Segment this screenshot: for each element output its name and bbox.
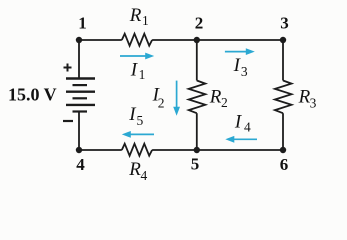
node 4 junction dot bbox=[76, 147, 82, 153]
wire: node 2 down to R2 bbox=[196, 40, 198, 81]
resistor R3 zigzag bbox=[275, 81, 292, 114]
svg-text:R: R bbox=[209, 86, 222, 107]
svg-text:2: 2 bbox=[195, 14, 204, 33]
wire: node 1 down to battery + terminal bbox=[78, 40, 80, 79]
wire: node 5 to node 6 (bottom rail right) bbox=[197, 149, 283, 151]
battery plate long 3 bbox=[66, 104, 95, 106]
svg-text:6: 6 bbox=[280, 155, 289, 174]
svg-text:3: 3 bbox=[280, 14, 289, 33]
resistor R1 zigzag bbox=[122, 34, 152, 46]
wire: R4 to node 5 (bottom rail middle) bbox=[152, 149, 197, 151]
battery 15.0 V: plate long 1 bbox=[66, 77, 95, 79]
svg-text:2: 2 bbox=[221, 95, 228, 110]
svg-text:I: I bbox=[234, 111, 243, 132]
node 2 junction dot bbox=[194, 37, 200, 43]
svg-text:3: 3 bbox=[310, 96, 317, 111]
wire: R2 down to node 5 bbox=[196, 113, 198, 150]
svg-text:2: 2 bbox=[158, 95, 165, 110]
current I5 arrow bbox=[122, 131, 154, 138]
wire: R1 to node 2 (top rail middle) bbox=[152, 39, 197, 41]
node 3 junction dot bbox=[280, 37, 286, 43]
resistor R2 zigzag bbox=[189, 81, 206, 114]
node 6 junction dot bbox=[280, 147, 286, 153]
wire: node 4 to R4 (bottom rail left) bbox=[79, 149, 122, 151]
wire: node 1 to R1 (top rail left) bbox=[79, 39, 122, 41]
svg-text:1: 1 bbox=[78, 14, 87, 33]
svg-text:4: 4 bbox=[141, 168, 148, 183]
svg-text:R: R bbox=[128, 159, 141, 180]
current I2 arrow bbox=[173, 81, 180, 116]
wire: battery - terminal down to node 4 bbox=[78, 112, 80, 151]
svg-text:I: I bbox=[130, 60, 139, 81]
battery plate long 2 bbox=[66, 90, 95, 92]
svg-text:5: 5 bbox=[137, 113, 144, 128]
current I1 arrow bbox=[120, 53, 154, 60]
svg-text:R: R bbox=[129, 5, 142, 26]
svg-text:4: 4 bbox=[76, 155, 85, 174]
svg-text:5: 5 bbox=[191, 155, 200, 174]
battery plate short 2 bbox=[73, 97, 88, 99]
svg-text:4: 4 bbox=[244, 120, 251, 135]
battery - sign bbox=[63, 120, 73, 122]
svg-text:15.0 V: 15.0 V bbox=[8, 85, 57, 105]
battery plate short 3 bbox=[73, 110, 88, 112]
svg-text:1: 1 bbox=[142, 13, 149, 28]
resistor R4 zigzag bbox=[122, 144, 152, 156]
svg-text:1: 1 bbox=[139, 67, 146, 82]
node 1 junction dot bbox=[76, 37, 82, 43]
current I3 arrow bbox=[225, 48, 255, 55]
battery plate short 1 bbox=[73, 84, 88, 86]
wire: R3 down to node 6 bbox=[282, 113, 284, 150]
node 5 junction dot bbox=[194, 147, 200, 153]
battery + sign bbox=[64, 64, 72, 72]
current I4 arrow bbox=[225, 136, 257, 143]
wire: node 3 down to R3 bbox=[282, 40, 284, 81]
svg-text:3: 3 bbox=[241, 64, 248, 79]
wire: node 2 to node 3 (top rail right) bbox=[197, 39, 283, 41]
